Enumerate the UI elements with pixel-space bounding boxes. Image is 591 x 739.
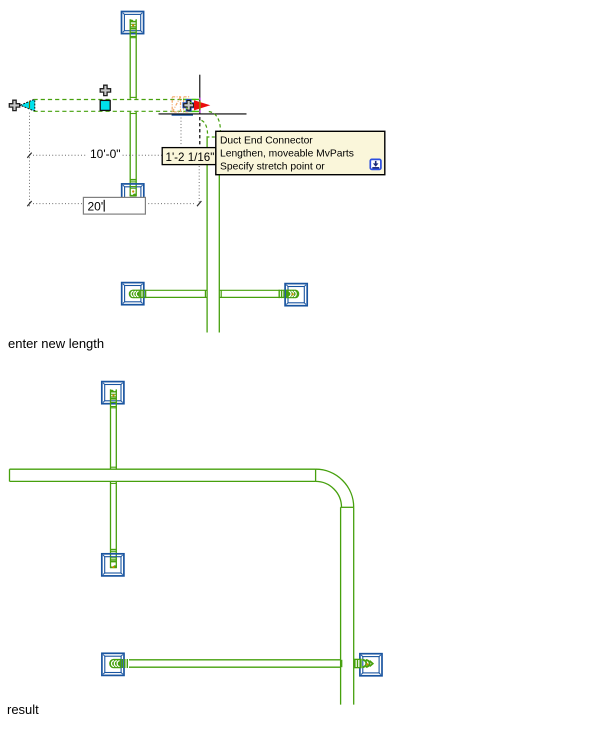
dim text background xyxy=(87,148,122,160)
tooltip down icon xyxy=(370,159,381,169)
dashed elbow preview inner arc xyxy=(202,120,208,136)
orange dot B2 bottom xyxy=(112,566,114,568)
grip plus P2 xyxy=(100,85,110,95)
duct branch B1 upper segment xyxy=(130,19,136,99)
dashed elbow preview outer arc xyxy=(209,112,221,131)
svg-text:enter new length: enter new length xyxy=(8,336,104,351)
top line xyxy=(10,468,316,470)
dimension line 10'-0" xyxy=(33,154,162,156)
crosshair vertical xyxy=(199,75,201,114)
elbow lower joint xyxy=(341,506,354,508)
elbow joint xyxy=(315,469,317,481)
junction tick xyxy=(130,96,136,98)
dim extension over triangle xyxy=(29,101,31,109)
lower duct L2 xyxy=(129,660,342,667)
dashed duct run (being stretched) top line xyxy=(34,99,201,101)
duct trunk T1 right line xyxy=(218,131,220,333)
crosshair horizontal xyxy=(159,113,247,115)
diffuser L2 left square xyxy=(102,653,124,675)
duct end connector (bottom of B1) xyxy=(130,187,137,197)
dim tick left bottom xyxy=(27,201,31,206)
diffuser D1 mid square xyxy=(122,184,144,206)
caret xyxy=(103,200,105,212)
duct end connector top of B2 xyxy=(110,390,117,408)
bottom line xyxy=(10,480,316,482)
flex rungs above diffuser D1 mid xyxy=(130,179,136,182)
duct branch B2 lower part xyxy=(111,482,117,568)
diffuser H1 right square xyxy=(285,284,307,306)
junction tick xyxy=(130,113,136,115)
flex connector at H1 right xyxy=(279,290,299,299)
cyan square grip xyxy=(100,100,110,110)
horizontal duct H1 left run xyxy=(139,290,208,297)
dimension line 20' (bottom) xyxy=(33,203,196,205)
junction tick at V2 xyxy=(341,660,343,667)
red stretch arrow xyxy=(194,100,210,110)
grip plus P1 xyxy=(9,100,19,110)
main duct M2 with elbow xyxy=(10,469,354,704)
svg-text:result: result xyxy=(7,702,39,717)
blue duct layer line xyxy=(172,114,193,116)
solid highlight segments near ghost xyxy=(183,99,199,111)
tooltip box xyxy=(216,131,385,174)
elbow inner arc xyxy=(316,481,342,507)
dim tick right bottom xyxy=(197,201,201,206)
duct end connector bottom of B2 xyxy=(110,558,117,568)
orange dot H1 right xyxy=(292,293,294,295)
orange ghost connector rect 1 xyxy=(172,97,188,112)
vertical duct V2 xyxy=(341,507,354,704)
H1 right tick xyxy=(220,290,222,297)
duct trunk T1 left line xyxy=(206,136,208,332)
duct branch B1 lower segment xyxy=(130,112,136,196)
diffuser D2 mid square xyxy=(102,554,124,576)
diffuser D1 top square xyxy=(122,12,144,34)
svg-text:Duct End Connector: Duct End Connector xyxy=(220,136,313,147)
svg-text:Specify stretch point or: Specify stretch point or xyxy=(220,162,325,173)
orange connector dot mid xyxy=(132,190,134,192)
diffuser L2 right square xyxy=(360,654,382,676)
dimension extension line (ghost) xyxy=(180,118,182,146)
diffuser H1 left square xyxy=(122,283,144,305)
svg-text:10'-0": 10'-0" xyxy=(90,147,121,161)
magenta snap marks xyxy=(199,98,201,113)
svg-text:Lengthen, moveable MvParts: Lengthen, moveable MvParts xyxy=(220,149,354,160)
dim tick left mid xyxy=(27,153,31,158)
orange connector dot xyxy=(132,24,134,26)
duct end connector (top of B1) xyxy=(130,20,137,38)
flex rungs above diffuser D2 mid xyxy=(111,549,117,552)
flex connector at L2 left xyxy=(109,659,127,668)
orange dot B2 top xyxy=(112,394,114,396)
left cap xyxy=(9,469,11,481)
orange dot L2 right xyxy=(366,663,368,665)
dashed duct run bottom line xyxy=(34,110,201,112)
svg-text:1'-2 1/16": 1'-2 1/16" xyxy=(166,151,215,164)
dimension extension line (cursor) xyxy=(198,166,200,204)
dimension extension line left xyxy=(29,113,31,207)
duct branch B2 xyxy=(111,389,117,468)
end connector at L2 right xyxy=(354,659,373,669)
elbow outer arc xyxy=(316,469,354,507)
svg-text:20': 20' xyxy=(88,200,104,214)
horizontal duct H1 right run xyxy=(219,290,289,297)
yellow value box 1'-2 1/16" xyxy=(162,148,216,165)
elbow preview ticks xyxy=(208,136,215,138)
flex connector at H1 left xyxy=(129,290,146,299)
grip plus P3 (hover, blue halo) xyxy=(184,100,194,110)
cyan flow arrow (triangle) xyxy=(19,104,21,106)
edit box 20' xyxy=(83,197,145,214)
H1 left tick xyxy=(204,290,206,297)
diffuser D2 top square xyxy=(102,382,124,404)
tracking dashed vertical xyxy=(199,117,201,147)
orange ghost connector rect 2 xyxy=(184,97,189,112)
olive overlay (crosshair over red) xyxy=(199,101,201,110)
